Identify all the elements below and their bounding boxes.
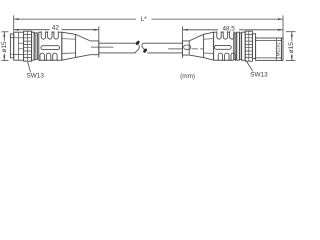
svg-text:(mm): (mm) [180,73,195,80]
break left dot [135,40,140,46]
svg-text:ø15: ø15 [1,41,8,53]
right grip bottom rib slots [218,53,235,61]
svg-text:48,5: 48,5 [222,26,235,33]
left grip middle slot [41,46,60,50]
L* left arrow [14,18,19,20]
left knurl ring (ladder grid) [24,31,32,61]
SW13 left leader [28,62,31,72]
right knurl ring (ladder grid) [245,31,252,61]
right tube slot [184,45,191,49]
thread inner lines [256,41,282,58]
right white cylinder [242,32,246,60]
left front collar inner lines [10,38,13,55]
left grip top rib slots [41,31,58,39]
right grip top edge gaps [217,32,234,33]
left tube slit line [91,46,113,48]
svg-text:SW13: SW13 [26,73,44,80]
right second band [240,33,242,60]
48,5 extension line left [182,26,184,58]
right thread barrel [256,38,282,60]
right band stripe [234,33,236,60]
right striped band [234,33,237,60]
o15 left bottom tick [2,59,9,61]
left connector front collar [10,34,13,58]
cable left segment bottom line [99,52,136,54]
o15 left down arrow [3,55,5,60]
L* extension line left [13,15,15,31]
42 extension line right [98,26,100,57]
left connector front body [14,32,24,60]
left band stripe [35,33,37,60]
right shoulder inner lines [204,39,214,54]
cable break right hook [142,43,145,50]
48,5 left arrow [183,29,188,31]
right white ring [237,32,240,60]
dimension o15 left: vertical line [3,32,5,60]
cable break left hook [135,45,139,53]
svg-text:M12x1: M12x1 [275,42,280,56]
svg-text:SW13: SW13 [250,71,268,78]
right grip middle slot [214,45,231,49]
cable left segment top line [99,42,136,44]
thread end vertical [275,38,277,60]
right slit line [168,48,182,50]
SW13 right leader [246,61,253,71]
svg-text:ø15: ø15 [288,42,295,54]
left striped band [34,33,37,60]
dimension L* line [14,18,283,20]
right grip body outline [214,32,234,60]
42 left arrow [14,29,19,31]
left grip top edge gaps [41,32,58,33]
L* right arrow [278,18,283,20]
48,5 right arrow [278,29,283,31]
o15 right up arrow [291,32,293,37]
right shoulder [204,32,214,60]
left shoulder [62,32,76,60]
left shoulder inner lines [62,39,76,54]
right cylinder ring before thread [252,34,255,59]
right strain relief tube [182,41,189,55]
o15 left top tick [2,31,9,33]
left grip bottom rib slots [40,53,57,61]
dimension o15 right: vertical line [291,32,293,60]
thread end washer [281,38,283,60]
dimension 48,5 line [183,29,283,31]
cable right segment top line [144,42,183,44]
right grip top rib slots [217,31,234,39]
break right dot [142,48,147,54]
left white ring [32,32,34,60]
left grip body outline [39,32,62,60]
left front body inner lines [14,32,24,60]
cable right segment bottom line [147,52,182,54]
right cone [189,34,203,57]
svg-text:L*: L* [141,16,148,23]
left strain relief tube [90,41,99,55]
svg-text:42: 42 [52,24,60,31]
L* extension line right [282,15,284,37]
o15 right top tick [286,31,296,33]
dimension 42 line [14,29,99,31]
42 right arrow [94,29,99,31]
o15 left up arrow [3,32,5,37]
right cone dashed slit [192,48,204,50]
o15 right bottom tick [286,60,296,62]
o15 right down arrow [291,56,293,61]
left cone [76,34,91,57]
